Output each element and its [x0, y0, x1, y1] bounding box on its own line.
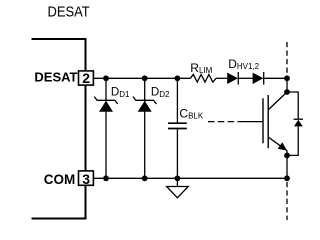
svg-text:DESAT: DESAT	[34, 69, 77, 84]
svg-text:DESAT: DESAT	[48, 5, 90, 21]
svg-text:2: 2	[82, 70, 90, 86]
svg-text:COM: COM	[44, 172, 76, 187]
svg-text:3: 3	[82, 171, 90, 187]
